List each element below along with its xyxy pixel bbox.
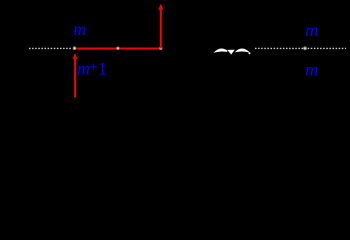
arrow: vertical red arrow pointing up at point m: [73, 53, 78, 97]
wire: red segment from m to m+1: [76, 47, 160, 49]
svg-text:+: +: [89, 59, 97, 75]
wire: left dotted axis segment: [29, 47, 71, 49]
svg-text:1: 1: [98, 59, 107, 79]
svg-text:m: m: [77, 59, 90, 79]
svg-text:m: m: [305, 59, 319, 79]
arrow: vertical red arrow up at corner: [158, 4, 163, 49]
svg-text:m: m: [73, 19, 86, 39]
node D: point m (right diagram): [303, 46, 307, 50]
wire: right dotted axis: [255, 47, 346, 49]
squiggle word (white, between diagrams): [214, 48, 251, 54]
node C: corner dot at m+1: [159, 47, 162, 50]
node A: point m (left diagram): [73, 46, 77, 50]
node B: midpoint dot on red segment: [116, 47, 119, 50]
svg-text:m: m: [305, 20, 319, 40]
